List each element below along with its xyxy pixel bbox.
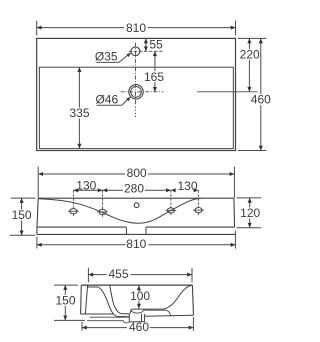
front outline: bottom edge right of notch: [146, 226, 235, 228]
underside line right of drain: [144, 314, 193, 317]
bowl interior back slope: [110, 285, 130, 314]
dim 455: extension lines: [87, 268, 89, 283]
svg-text:810: 810: [126, 21, 146, 35]
svg-text:460: 460: [129, 320, 149, 334]
side outline: left outer edge: [80, 285, 83, 314]
basin interior curve (front): [39, 198, 201, 223]
underside step detail: [145, 310, 171, 315]
dim 150 side: line: [64, 285, 66, 320]
svg-text:280: 280: [124, 182, 144, 196]
dim 220: label: [239, 49, 262, 60]
dim 460 bottom: label: [127, 323, 150, 333]
dim 120: line: [249, 198, 251, 228]
dim 800: extension lines: [37, 167, 39, 198]
dim 150 side: label: [54, 295, 78, 306]
drain notch on front view: [126, 227, 146, 234]
dim 100: arrows and label: [138, 285, 140, 291]
side outline: top edge: [81, 284, 192, 286]
drain trap box: [129, 314, 144, 322]
front lower bottom line: [37, 233, 235, 235]
svg-text:165: 165: [144, 70, 164, 84]
fixing lip line upper: [90, 316, 130, 318]
dim 120: label: [239, 208, 262, 219]
front outline: right edge: [233, 198, 236, 227]
svg-text:810: 810: [126, 237, 146, 251]
horizontal centerline of faucet hole (dashed): [129, 50, 163, 52]
dim 810 bottom: line: [37, 244, 236, 246]
front outline: top edge: [38, 197, 234, 199]
drain hole inner circle: [131, 87, 142, 98]
fixing hole oval 3: [167, 208, 174, 213]
fixing hole oval 1: [70, 209, 77, 214]
dim 460 right: line: [260, 38, 262, 150]
dim 150 side: extension lines: [54, 284, 78, 286]
dim 150 front: extension lines: [11, 197, 36, 199]
svg-text:55: 55: [149, 37, 163, 51]
front outline: left edge: [37, 198, 38, 234]
drain underside dish: [131, 310, 145, 314]
bowl interior bottom and front rise: [130, 285, 192, 313]
dim 165: line: [154, 51, 156, 92]
horizontal centerline of drain hole (dashed, extends right to 220 dim): [121, 91, 164, 93]
dim 810 top: arrowheads: [37, 26, 42, 30]
dim 810 top: dimension line: [37, 27, 236, 29]
dim 220/460 right: extension lines: [238, 37, 267, 39]
dim 810 top: extension lines: [36, 21, 38, 36]
vertical centerline through holes (dash-dot): [135, 43, 137, 105]
dim 810 bottom: label: [126, 239, 149, 250]
svg-text:120: 120: [240, 206, 260, 220]
dim 220: line: [248, 38, 250, 91]
dim 130 left: line+arrows+label: [73, 189, 102, 191]
dim 335: line: [78, 67, 80, 148]
dim 120 right: extension lines: [237, 197, 262, 199]
svg-text:Ø35: Ø35: [95, 49, 118, 63]
fixing hole oval 2: [99, 209, 106, 214]
overflow hole circle: [134, 203, 139, 208]
basin outer rim rectangle (810 x 460): [37, 38, 236, 150]
svg-text:335: 335: [69, 106, 89, 120]
svg-text:455: 455: [108, 267, 128, 281]
fixing lip line lower: [87, 321, 129, 323]
dim 455: line: [88, 274, 192, 276]
dim 810 bottom: extension lines: [36, 237, 38, 249]
side outline: back wall bottom: [81, 313, 114, 315]
dim 810 top: label: [124, 22, 148, 33]
svg-text:130: 130: [177, 179, 197, 193]
dim 150 front: label: [10, 210, 34, 221]
svg-text:130: 130: [76, 178, 96, 192]
faucet hole circle O35: [131, 47, 140, 56]
dim 130 right: arrows+label: [171, 188, 176, 192]
svg-text:150: 150: [12, 208, 32, 222]
dim 55: line and arrows: [145, 38, 147, 51]
dim 455: label: [107, 269, 131, 280]
dim 335: label: [68, 108, 91, 119]
dim 150 front: line: [21, 198, 23, 235]
dashed hole centerlines up to 130/280 dims: [72, 190, 74, 208]
svg-text:100: 100: [130, 289, 150, 303]
dim 165: label: [144, 71, 166, 82]
drain hole outer circle O46: [129, 85, 143, 99]
dim 460 right: label: [250, 94, 273, 105]
svg-text:220: 220: [240, 47, 260, 61]
svg-text:Ø46: Ø46: [95, 92, 118, 106]
side outline: right edge: [192, 285, 193, 315]
svg-text:800: 800: [127, 166, 147, 180]
back wall inner surface: [85, 285, 87, 313]
dim 800: line: [38, 173, 234, 175]
fixing hole oval 4: [195, 208, 202, 213]
dim 460 bottom: line: [82, 327, 193, 329]
tap ledge line: [88, 285, 99, 287]
bowl outer back slope: [98, 287, 129, 317]
dim 280: line+arrows+label: [103, 189, 171, 191]
basin inner bowl rectangle: [39, 67, 233, 148]
svg-text:460: 460: [251, 92, 271, 106]
dim 460 bottom: extension lines: [81, 322, 83, 331]
dim 800: label: [125, 169, 148, 180]
svg-text:150: 150: [55, 293, 75, 307]
front outline: bottom edge left of notch: [37, 226, 126, 228]
